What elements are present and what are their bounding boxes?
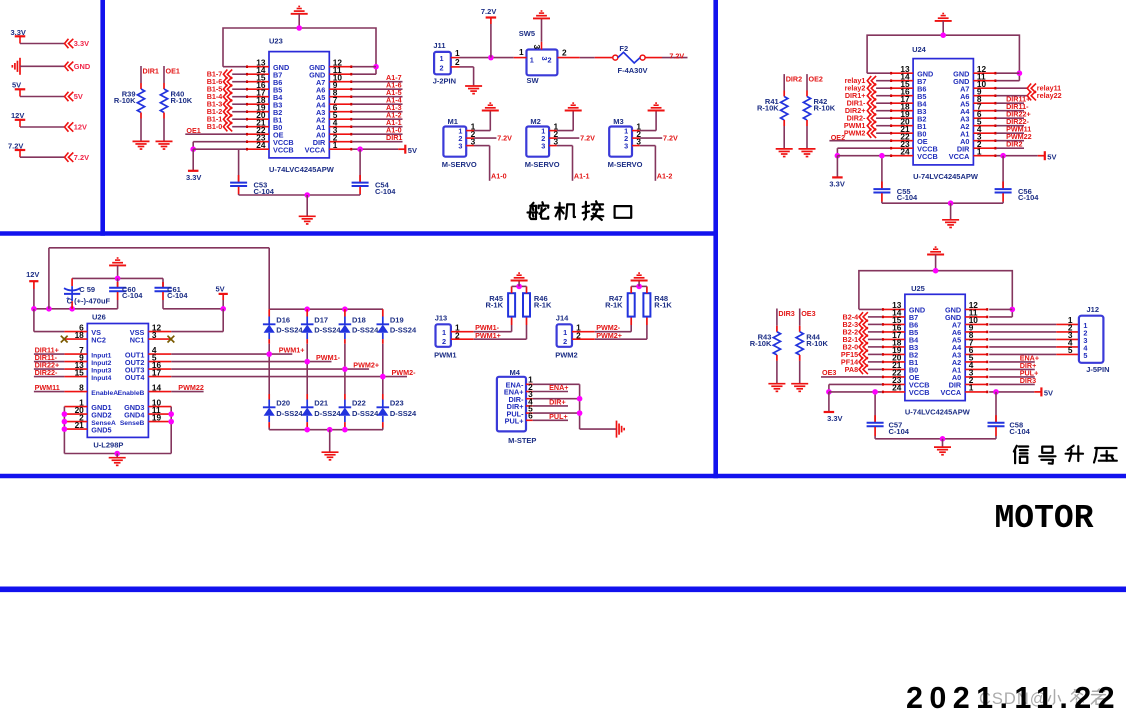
svg-text:J12: J12: [1087, 305, 1100, 314]
svg-text:D-SS24: D-SS24: [314, 325, 341, 334]
net label DIR1: [143, 66, 159, 75]
svg-text:M-SERVO: M-SERVO: [442, 160, 477, 169]
svg-text:VCCB: VCCB: [273, 145, 294, 154]
svg-text:D-SS24: D-SS24: [314, 409, 341, 418]
net label PF15: [841, 350, 882, 359]
svg-text:PWM22: PWM22: [178, 383, 204, 392]
svg-text:VCCA: VCCA: [949, 152, 970, 161]
switch SW5: [514, 29, 580, 85]
net label relay1: [845, 76, 890, 85]
svg-text:C-104: C-104: [122, 291, 143, 300]
svg-text:C-104: C-104: [1009, 427, 1030, 436]
svg-text:D-SS24: D-SS24: [390, 409, 417, 418]
wire to J12: [989, 331, 1079, 333]
net label 7.2V: [557, 133, 595, 142]
wire 5V to VSS: [163, 306, 226, 332]
ground: [12, 58, 20, 75]
svg-text:3: 3: [532, 45, 542, 50]
ground: [465, 86, 482, 94]
svg-text:A1-0: A1-0: [491, 172, 507, 181]
power 5V: [216, 284, 228, 309]
svg-text:U-L298P: U-L298P: [93, 440, 123, 449]
power 5V: [405, 145, 417, 155]
wire GND loop: [223, 14, 379, 74]
net label A1-0: [474, 146, 507, 181]
connector J13: [434, 313, 474, 359]
ground: [776, 149, 793, 157]
port 7.2V: [65, 153, 90, 162]
wire VCCB: [826, 384, 882, 394]
ground: [109, 458, 126, 466]
net label A1-1: [557, 146, 590, 181]
svg-text:6: 6: [528, 411, 533, 421]
svg-text:M2: M2: [530, 117, 540, 126]
ground: [322, 452, 339, 460]
svg-text:J14: J14: [556, 313, 569, 322]
svg-text:21: 21: [75, 420, 85, 430]
net label OE1: [166, 66, 180, 75]
svg-text:3: 3: [458, 142, 462, 151]
resistor R48 R-1K: [643, 286, 672, 316]
net label OE3: [801, 309, 815, 318]
ground: [935, 14, 952, 21]
net label DIR2-: [847, 114, 890, 123]
wire: [20, 96, 64, 98]
net label OE1: [185, 126, 246, 135]
svg-text:Input3: Input3: [91, 367, 111, 374]
net label DIR+: [533, 397, 568, 406]
net label DIR11-: [34, 353, 65, 362]
net label ENA+: [989, 353, 1039, 362]
svg-text:J-2PIN: J-2PIN: [433, 76, 456, 85]
ground: [791, 384, 808, 392]
net label PWM22: [996, 132, 1031, 141]
net label PA8: [845, 365, 882, 374]
svg-text:7.2V: 7.2V: [580, 133, 595, 142]
IC U23 74LVC4245APW: [246, 37, 352, 175]
svg-text:DIR+: DIR+: [549, 397, 566, 406]
svg-text:GND: GND: [74, 62, 91, 71]
svg-text:F-4A30V: F-4A30V: [618, 66, 648, 75]
net label A1-3: [352, 103, 402, 112]
svg-text:M-SERVO: M-SERVO: [525, 160, 560, 169]
net label DIR2: [996, 140, 1024, 149]
svg-text:DIR3: DIR3: [778, 309, 794, 318]
capacitor C61: [155, 278, 189, 308]
net label A1-6: [352, 81, 402, 90]
connector M1 M-SERVO: [442, 117, 477, 169]
net label DIR11+: [34, 346, 65, 355]
svg-text:2: 2: [439, 64, 443, 73]
net label B1-7: [207, 70, 246, 79]
wire: [20, 43, 64, 45]
net label PWM2+: [595, 317, 647, 341]
diode D17 D-SS24: [301, 309, 341, 361]
no-connect NC1: [168, 336, 175, 343]
net label A1-1: [352, 118, 402, 127]
svg-text:DIR2: DIR2: [1006, 140, 1022, 149]
svg-text:VCCB: VCCB: [917, 152, 938, 161]
svg-text:A1-2: A1-2: [657, 172, 673, 181]
connector M4 M-STEP: [497, 368, 537, 445]
wire SW5 gnd: [541, 18, 543, 41]
wire cap gnd rail: [875, 436, 996, 447]
svg-text:17: 17: [152, 367, 162, 377]
net label DIR1-: [847, 99, 890, 108]
svg-text:PA8: PA8: [845, 365, 858, 374]
ground: [927, 247, 944, 254]
power 3.3V: [186, 149, 201, 182]
connector J14: [555, 313, 595, 359]
svg-text:D17: D17: [314, 316, 328, 325]
svg-text:PWM2: PWM2: [844, 129, 866, 138]
svg-text:5V: 5V: [216, 284, 225, 293]
svg-text:U-74LVC4245APW: U-74LVC4245APW: [905, 408, 971, 417]
net label PWM1-: [171, 353, 340, 364]
svg-text:OE2: OE2: [809, 74, 823, 83]
net label PWM2-: [595, 317, 631, 333]
ground: [299, 216, 316, 224]
diode D18 D-SS24: [339, 309, 379, 369]
svg-text:GND5: GND5: [91, 425, 111, 434]
svg-text:DIR1: DIR1: [386, 133, 402, 142]
svg-text:2021.11.22: 2021.11.22: [906, 681, 1121, 715]
svg-text:3: 3: [624, 142, 628, 151]
wire VCCB: [835, 148, 890, 158]
resistor R43: [750, 309, 781, 384]
svg-text:MOTOR: MOTOR: [995, 500, 1094, 537]
ground: [768, 384, 785, 392]
svg-text:1: 1: [530, 56, 534, 65]
wire VCCA 5V rail: [352, 146, 404, 152]
diode D19 D-SS24: [377, 309, 417, 376]
svg-text:U23: U23: [269, 37, 283, 46]
svg-text:24: 24: [892, 383, 902, 393]
net label B1-4: [207, 92, 246, 101]
wire servo gnd: [474, 111, 490, 131]
svg-text:5V: 5V: [1047, 152, 1056, 161]
wire: [20, 156, 64, 158]
svg-text:C (+-)-470uF: C (+-)-470uF: [67, 297, 111, 306]
svg-text:D16: D16: [276, 316, 290, 325]
ground: [533, 11, 550, 18]
wire resistor tops: [512, 281, 527, 289]
svg-text:NC2: NC2: [91, 335, 106, 344]
svg-text:1: 1: [969, 383, 974, 393]
svg-text:2: 2: [562, 48, 567, 58]
svg-text:R-10K: R-10K: [806, 339, 828, 348]
svg-text:M-SERVO: M-SERVO: [608, 160, 643, 169]
svg-text:C-104: C-104: [375, 187, 396, 196]
svg-text:SW5: SW5: [519, 29, 535, 38]
svg-text:D21: D21: [314, 399, 328, 408]
svg-text:D18: D18: [352, 316, 366, 325]
diode D22 D-SS24: [339, 369, 379, 430]
svg-text:14: 14: [152, 382, 162, 392]
net label OE2: [829, 133, 890, 142]
capacitor C60: [109, 278, 143, 308]
connector J11: [433, 41, 460, 86]
svg-text:8: 8: [79, 382, 84, 392]
svg-text:3.3V: 3.3V: [186, 173, 201, 182]
wire J11 pin1: [460, 55, 514, 61]
net label DIR22-: [34, 368, 65, 377]
resistor R47 R-1K: [605, 286, 635, 316]
net label B1-5: [207, 85, 246, 94]
svg-text:Input4: Input4: [91, 375, 111, 382]
no-connect NC2: [61, 336, 68, 343]
net label PWM1+: [474, 317, 527, 341]
net label A1-0: [352, 126, 402, 135]
svg-text:SenseB: SenseB: [120, 420, 145, 427]
svg-text:DIR1: DIR1: [143, 66, 159, 75]
power 7.2V: [8, 141, 25, 157]
net label PWM11: [996, 125, 1031, 134]
capacitor C55: [873, 156, 918, 204]
svg-text:18: 18: [75, 330, 85, 340]
ground: [156, 141, 173, 149]
wire resistor tops: [631, 281, 647, 289]
wire VCCA 5V rail: [996, 153, 1044, 159]
diode D23 D-SS24: [377, 377, 417, 430]
svg-text:PWM11: PWM11: [35, 383, 60, 392]
ground: [109, 258, 126, 265]
svg-text:PWM2-: PWM2-: [392, 368, 417, 377]
svg-text:VCCB: VCCB: [909, 388, 930, 397]
net label A1-4: [352, 96, 402, 105]
net label A1-2: [352, 111, 402, 120]
net label DIR2: [786, 74, 802, 83]
net label PWM22: [171, 383, 204, 392]
resistor R40: [160, 66, 192, 141]
svg-text:7.2V: 7.2V: [74, 153, 89, 162]
svg-text:R-10K: R-10K: [757, 104, 779, 113]
wire 12V diode rail: [269, 306, 383, 312]
connector M3 M-SERVO: [608, 117, 643, 169]
power 3.3V: [829, 156, 844, 189]
net label PWM1: [844, 121, 890, 130]
svg-text:ENA+: ENA+: [549, 383, 568, 392]
wire GND loop: [859, 255, 1015, 317]
svg-text:OE3: OE3: [822, 368, 836, 377]
ground: [942, 220, 959, 228]
net label A1-2: [640, 146, 673, 181]
fuse F2 F-4A30V: [595, 44, 662, 75]
svg-text:24: 24: [900, 147, 910, 157]
net label OE2: [809, 74, 823, 83]
net label DIR+: [989, 361, 1036, 370]
svg-text:15: 15: [75, 367, 85, 377]
resistor R44: [796, 309, 828, 384]
power 3.3V: [824, 392, 843, 423]
svg-text:R-1K: R-1K: [605, 301, 623, 310]
net label DIR1+: [845, 91, 890, 100]
svg-text:VCCA: VCCA: [941, 388, 962, 397]
capacitor C59 470uF: [64, 278, 111, 308]
svg-text:5: 5: [1083, 351, 1087, 360]
text MOTOR: [995, 500, 1094, 537]
ground: [799, 149, 816, 157]
net label PWM1+: [171, 346, 304, 357]
net label DIR1: [352, 133, 402, 142]
ground: [133, 141, 150, 149]
svg-text:PWM1-: PWM1-: [316, 353, 341, 362]
resistor R41: [757, 74, 788, 149]
ground: [648, 103, 665, 110]
power 3.3V: [11, 28, 26, 44]
svg-text:M4: M4: [510, 368, 521, 377]
net label ENA+: [533, 383, 569, 392]
watermark CSDN: [979, 689, 1105, 708]
svg-text:2: 2: [563, 337, 567, 346]
svg-text:24: 24: [256, 140, 266, 150]
wire diode gnd rail: [269, 427, 383, 452]
svg-text:1: 1: [519, 47, 524, 57]
svg-text:DIR22-: DIR22-: [35, 368, 58, 377]
power 12V: [26, 270, 39, 309]
net label B1-3: [207, 100, 246, 109]
svg-text:relay22: relay22: [1037, 91, 1062, 100]
net label relay2: [845, 84, 890, 93]
net label OE3: [821, 368, 882, 377]
wire SW5 to F2: [580, 57, 595, 59]
svg-text:PUL+: PUL+: [505, 417, 524, 426]
capacitor C54: [352, 149, 397, 196]
svg-text:D-SS24: D-SS24: [276, 325, 303, 334]
svg-text:R-1K: R-1K: [654, 301, 672, 310]
svg-text:D20: D20: [276, 399, 290, 408]
net label PF14: [841, 357, 882, 366]
svg-text:GND2: GND2: [91, 410, 111, 419]
net label DIR22+: [996, 110, 1030, 119]
svg-text:U24: U24: [912, 45, 927, 54]
connector M2 M-SERVO: [525, 117, 560, 169]
wire gnd bracket left: [62, 407, 68, 454]
svg-text:1: 1: [439, 54, 443, 63]
net label B2-2: [843, 327, 882, 336]
ground: [617, 421, 625, 438]
net label PWM2-: [171, 368, 416, 379]
svg-text:2: 2: [442, 337, 446, 346]
svg-text:R-10K: R-10K: [114, 96, 136, 105]
wire: [20, 126, 64, 128]
svg-text:5: 5: [1068, 345, 1073, 355]
net label 7.2V: [474, 133, 512, 142]
svg-text:3: 3: [540, 57, 549, 61]
svg-text:EnableA: EnableA: [91, 390, 118, 397]
IC U26 L298P: [64, 313, 171, 450]
diode D20 D-SS24: [263, 354, 303, 430]
net label A1-7: [352, 73, 402, 82]
resistor R39: [114, 66, 145, 141]
capacitor C57: [867, 392, 910, 439]
svg-text:C-104: C-104: [1018, 193, 1039, 202]
svg-text:B1-0: B1-0: [207, 122, 223, 131]
title 信号升压: [1014, 446, 1117, 464]
wire gnd bracket right: [168, 407, 174, 454]
net label relay22: [996, 91, 1061, 100]
svg-text:OE3: OE3: [801, 309, 815, 318]
net label DIR11-: [996, 102, 1029, 111]
net label B1-6: [207, 77, 246, 86]
ground: [511, 273, 528, 280]
power 5V: [12, 81, 25, 97]
svg-text:3.3V: 3.3V: [74, 39, 89, 48]
svg-text:7.2V: 7.2V: [497, 133, 512, 142]
svg-text:C 59: C 59: [79, 285, 95, 294]
svg-text:C-104: C-104: [167, 291, 188, 300]
power 5V: [1045, 151, 1057, 161]
ground: [291, 6, 308, 13]
svg-text:A1-1: A1-1: [574, 172, 590, 181]
resistor R45 R-1K: [485, 286, 515, 316]
wire GND loop: [867, 21, 1022, 81]
svg-text:J11: J11: [433, 41, 445, 50]
svg-text:VCCA: VCCA: [305, 145, 326, 154]
svg-text:3.3V: 3.3V: [829, 180, 844, 189]
net label B1-2: [207, 107, 246, 116]
svg-text:J13: J13: [435, 313, 448, 322]
svg-text:1: 1: [333, 140, 338, 150]
svg-text:2: 2: [455, 57, 460, 67]
ground: [482, 103, 499, 110]
svg-text:PWM2: PWM2: [555, 350, 578, 359]
power 7.2V: [481, 7, 496, 58]
svg-text:D-SS24: D-SS24: [390, 325, 417, 334]
svg-text:Input2: Input2: [91, 360, 111, 367]
text 2021.11.22: [906, 681, 1121, 715]
wire servo gnd: [640, 111, 656, 131]
net label DIR3: [778, 309, 794, 318]
svg-text:C-104: C-104: [889, 427, 910, 436]
net label PUL+: [989, 368, 1038, 377]
IC U24 74LVC4245APW: [890, 45, 996, 181]
net label PWM1-: [474, 317, 512, 333]
net label B1-1: [207, 115, 246, 124]
svg-text:5V: 5V: [74, 92, 83, 101]
wire to J12: [989, 338, 1079, 340]
svg-text:J-5PIN: J-5PIN: [1086, 365, 1109, 374]
svg-text:U26: U26: [92, 313, 106, 322]
power 12V: [11, 111, 25, 127]
net label DIR2+: [845, 106, 890, 115]
svg-text:SW: SW: [527, 76, 540, 85]
svg-text:EnableB: EnableB: [118, 390, 145, 397]
capacitor C56: [995, 156, 1040, 204]
net label DIR22+: [34, 361, 65, 370]
svg-text:D23: D23: [390, 399, 404, 408]
svg-text:5V: 5V: [1044, 389, 1053, 398]
connector J12 J-5PIN: [1068, 305, 1110, 374]
svg-text:1: 1: [977, 147, 982, 157]
svg-text:PWM1+: PWM1+: [279, 346, 305, 355]
wire: [20, 65, 64, 67]
svg-text:DIR2: DIR2: [786, 74, 802, 83]
port 3.3V: [65, 39, 90, 48]
port 12V: [65, 122, 88, 131]
svg-text:D-SS24: D-SS24: [276, 409, 303, 418]
svg-text:D19: D19: [390, 316, 404, 325]
net label B1-0: [207, 122, 246, 131]
net label B2-3: [843, 320, 882, 329]
port GND: [65, 62, 91, 71]
svg-text:PWM2+: PWM2+: [353, 361, 379, 370]
IC U25 74LVC4245APW: [882, 284, 988, 417]
svg-text:U-74LVC4245APW: U-74LVC4245APW: [913, 172, 979, 181]
diode D16 D-SS24: [263, 309, 303, 354]
svg-text:12V: 12V: [26, 270, 39, 279]
ground: [565, 103, 582, 110]
